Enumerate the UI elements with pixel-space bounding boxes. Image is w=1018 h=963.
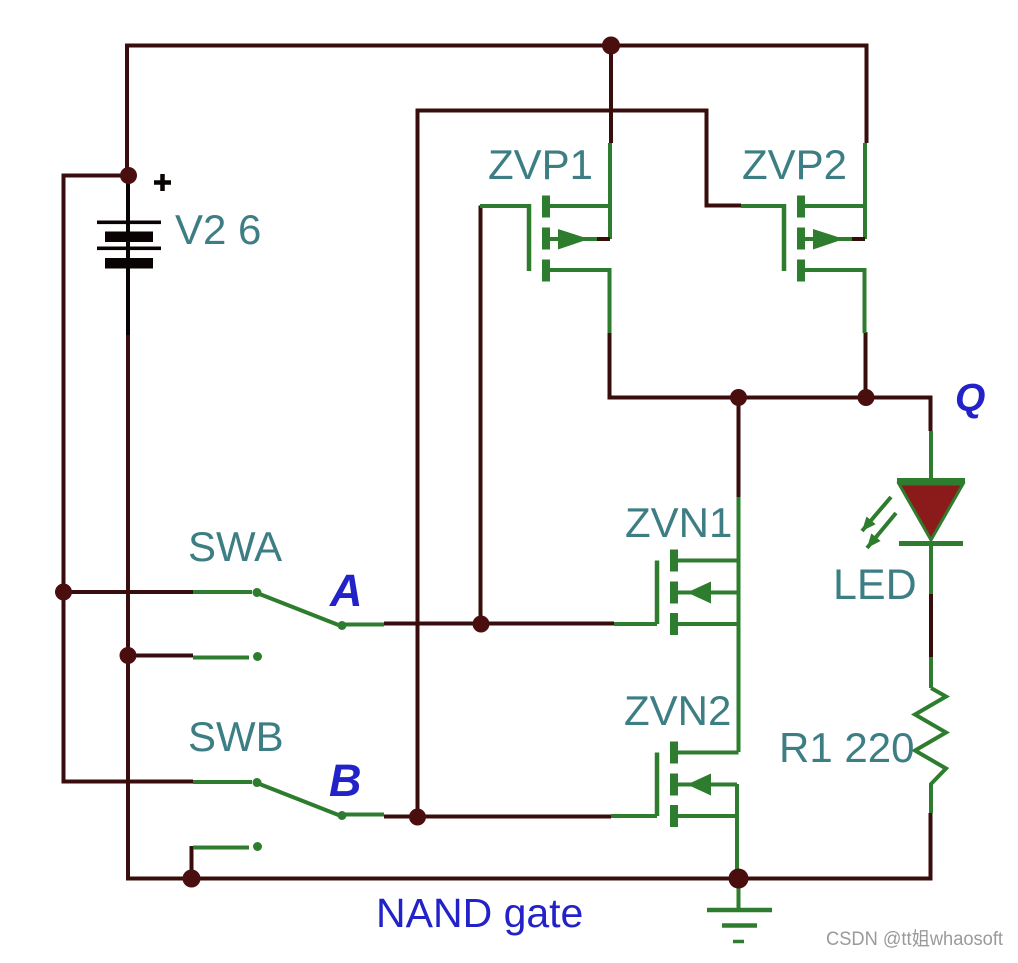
svg-text:R1 220: R1 220 bbox=[779, 724, 914, 771]
svg-text:ZVN1: ZVN1 bbox=[625, 499, 732, 546]
svg-text:SWB: SWB bbox=[188, 713, 284, 760]
svg-text:V2 6: V2 6 bbox=[175, 206, 261, 253]
svg-text:A: A bbox=[329, 565, 363, 616]
svg-text:SWA: SWA bbox=[188, 523, 282, 570]
svg-text:ZVP1: ZVP1 bbox=[488, 141, 593, 188]
svg-text:B: B bbox=[329, 755, 362, 806]
svg-text:Q: Q bbox=[955, 377, 985, 420]
svg-text:LED: LED bbox=[833, 561, 917, 609]
svg-text:NAND gate: NAND gate bbox=[376, 890, 583, 936]
svg-text:ZVP2: ZVP2 bbox=[742, 141, 847, 188]
svg-text:ZVN2: ZVN2 bbox=[624, 687, 731, 734]
svg-text:CSDN @tt姐whaosoft: CSDN @tt姐whaosoft bbox=[826, 928, 1004, 950]
